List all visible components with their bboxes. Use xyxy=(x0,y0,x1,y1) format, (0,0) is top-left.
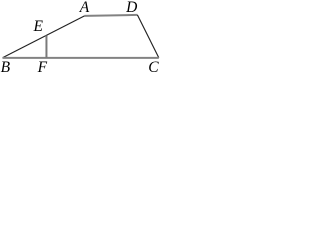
svg-text:C: C xyxy=(148,59,159,73)
side BA xyxy=(3,16,85,58)
side CB xyxy=(3,57,159,59)
svg-text:D: D xyxy=(125,0,137,16)
svg-text:A: A xyxy=(79,0,90,16)
segment EF xyxy=(45,36,47,58)
svg-text:F: F xyxy=(37,59,48,73)
svg-text:E: E xyxy=(32,18,43,35)
side DC xyxy=(137,15,158,58)
svg-text:B: B xyxy=(1,59,11,73)
side AD xyxy=(85,15,138,16)
